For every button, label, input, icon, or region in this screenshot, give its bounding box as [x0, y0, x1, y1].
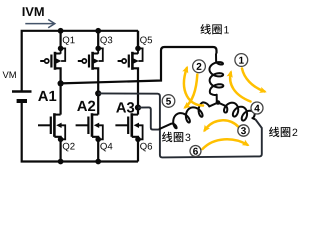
label IVM supply current — [23, 7, 44, 16]
step number 5 — [162, 95, 175, 108]
step number 4 — [251, 102, 263, 114]
wire: phase A3 to coil3 left terminal — [138, 107, 159, 129]
label 线圈2 (coil 2) — [269, 127, 297, 137]
node: motor star neutral point — [216, 100, 221, 105]
label Q4 — [100, 143, 112, 152]
node A3 phase output — [135, 105, 141, 111]
node A1 phase output — [58, 80, 64, 86]
transistor Q5 (P-channel MOSFET, high side) — [118, 31, 143, 108]
current arrow right of coil1, upward — [230, 73, 250, 102]
current arrow from step3 toward coil3 label — [205, 120, 239, 130]
step number 1 — [235, 54, 248, 67]
node A2 phase output — [95, 90, 101, 96]
wire: phase A2 to coil2 (down, along bottom, up) — [98, 93, 262, 157]
transistor Q4 (N-channel MOSFET, low side) — [76, 93, 103, 161]
label Q5 — [140, 36, 152, 45]
transistor Q3 (P-channel MOSFET, high side) — [78, 31, 103, 94]
label Q2 — [63, 143, 75, 152]
junction dot: top rail / Q3 source — [95, 28, 101, 34]
coil L3 (线圈3) — [159, 102, 218, 129]
current arrow from step1 toward step4 — [242, 69, 265, 92]
wire: phase A1 to coil1 (riser and top bridge) — [61, 47, 217, 83]
current arrow from step2 toward coil3 — [185, 75, 197, 108]
step number 2 — [193, 60, 206, 73]
IVM current direction arrow — [25, 20, 55, 28]
label VM — [3, 72, 16, 78]
transistor Q2 (N-channel MOSFET, low side) — [38, 83, 65, 161]
junction dot: bottom rail / Q4 source — [95, 159, 101, 165]
battery VM — [12, 92, 32, 102]
label 线圈1 (coil 1) — [200, 24, 228, 34]
label A1 — [38, 91, 56, 101]
transistor Q6 (N-channel MOSFET, low side) — [115, 108, 142, 162]
wire: battery negative to bottom rail — [22, 103, 138, 162]
wire: VM+ top power rail — [22, 31, 138, 91]
current arrow from step6 toward coil2 — [203, 139, 248, 149]
coil L2 (线圈2) — [218, 103, 256, 121]
wire: top rail drop to Q5 — [137, 31, 139, 49]
step number 6 — [190, 146, 201, 157]
coil L1 (线圈1) — [209, 54, 223, 103]
transistor Q1 (P-channel MOSFET, high side) — [40, 31, 65, 84]
label A3 — [116, 102, 134, 113]
label Q3 — [100, 36, 112, 45]
label Q1 — [63, 36, 75, 45]
label 线圈3 (coil 3) — [162, 132, 190, 142]
junction dot: top rail / Q1 source — [58, 28, 64, 34]
step number 3 — [238, 125, 249, 136]
junction dot: bottom rail / Q2 source — [58, 159, 64, 165]
current arrow left of coil1, upward — [184, 68, 203, 106]
label Q6 — [140, 143, 152, 152]
label A2 — [77, 101, 95, 111]
